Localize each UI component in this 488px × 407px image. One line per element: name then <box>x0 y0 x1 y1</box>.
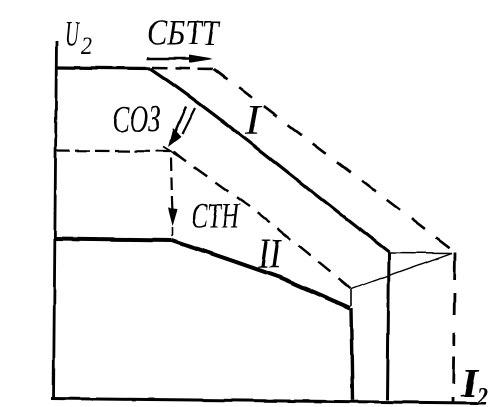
curve II horizontal segment <box>54 239 172 241</box>
svg-text:II: II <box>257 232 282 278</box>
svg-text:СОЗ: СОЗ <box>112 99 161 141</box>
dashed vertical drop (shifted curve) <box>453 252 455 402</box>
svg-text:СБТТ: СБТТ <box>147 13 222 53</box>
arrow CO3 (double stroke, points down-left) <box>172 106 186 139</box>
y-axis (U2 axis) <box>54 41 57 400</box>
dashed mid horizontal line <box>55 151 170 152</box>
dashed diagonal (CBTT-shifted curve) <box>214 69 454 252</box>
svg-text:2: 2 <box>476 384 488 407</box>
curve I top horizontal segment <box>55 68 150 69</box>
svg-text:U: U <box>65 15 81 54</box>
dashed horizontal continuation (shifted curve) <box>152 68 214 69</box>
svg-text:2: 2 <box>81 33 92 60</box>
dashed vertical arrow CTH (points down) <box>171 158 172 200</box>
svg-text:I: I <box>244 98 262 144</box>
curve II vertical drop <box>351 308 353 400</box>
svg-text:СТН: СТН <box>191 196 240 236</box>
dashed diagonal (CO3-shifted curve) <box>173 152 351 289</box>
curve I vertical drop <box>388 252 390 400</box>
x-axis (I2 axis) <box>51 399 477 404</box>
curve I drooping diagonal <box>150 69 389 253</box>
junction cross mark <box>163 147 178 156</box>
curve II drooping diagonal <box>172 240 350 308</box>
thin diagonal connector to dashed corner <box>351 253 452 289</box>
thin horizontal connector between corners <box>389 252 452 255</box>
arrow CBTT (points right) <box>147 57 196 60</box>
thin vertical connector at curve II corner <box>350 289 352 306</box>
